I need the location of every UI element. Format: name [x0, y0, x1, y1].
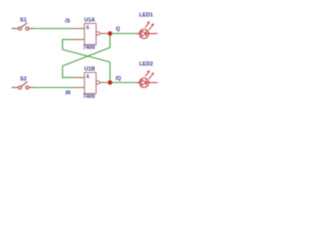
wire /Q net U1B output to LED2	[106, 82, 136, 84]
svg-text:U1A: U1A	[84, 18, 95, 24]
NAND gate U1B	[74, 73, 106, 94]
svg-text:/Q: /Q	[115, 76, 121, 82]
svg-text:/R: /R	[65, 90, 70, 96]
svg-text:LED1: LED1	[139, 12, 153, 18]
switch S1	[12, 23, 35, 31]
NAND gate U1A	[74, 24, 106, 45]
wire left vertical top	[62, 39, 64, 50]
wire /S net S1 to U1A pin 1	[35, 28, 75, 30]
wire right vertical bottom to /Q junction	[109, 62, 111, 83]
svg-text:Q: Q	[116, 27, 120, 33]
svg-text:S1: S1	[20, 18, 27, 24]
svg-text:S2: S2	[20, 77, 27, 83]
wire U1B pin 1 feedback horizontal	[63, 77, 75, 79]
wire left vertical bottom	[62, 66, 64, 78]
junction dot Q node	[108, 31, 113, 36]
svg-text:LED2: LED2	[139, 61, 153, 67]
svg-text:&: &	[86, 25, 90, 31]
wire right vertical top from Q junction	[109, 34, 111, 48]
wire Q net U1A output to LED1	[106, 33, 136, 35]
svg-text:&: &	[86, 74, 90, 80]
LED2	[136, 70, 158, 87]
wire /R net S2 to U1B pin 2	[35, 87, 75, 89]
svg-text:7400: 7400	[83, 94, 95, 100]
svg-text:/S: /S	[65, 18, 70, 24]
junction dot /Q node	[108, 80, 113, 85]
wire diagonal Q feedback to U1B	[63, 48, 111, 67]
switch S2	[12, 82, 35, 90]
svg-text:7400: 7400	[83, 45, 95, 51]
wire U1A pin 2 feedback horizontal	[63, 39, 75, 41]
svg-text:U1B: U1B	[84, 67, 95, 73]
wire diagonal /Q feedback to U1A	[63, 50, 111, 63]
LED1	[136, 21, 158, 38]
